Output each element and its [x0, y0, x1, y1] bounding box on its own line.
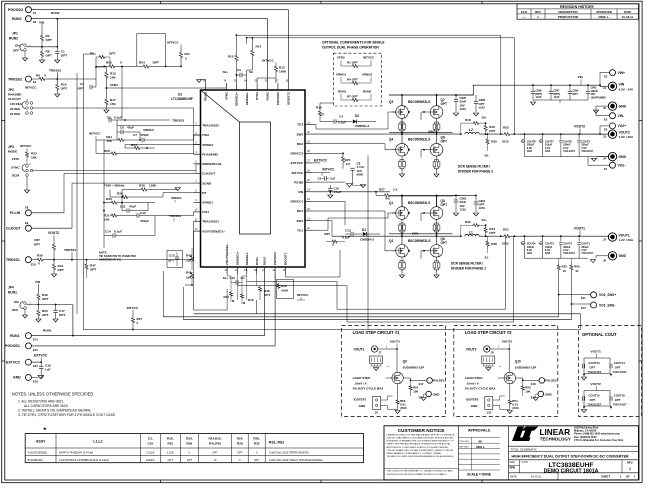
svg-text:OPT: OPT — [168, 259, 174, 263]
pin 24 VIN — [305, 191, 312, 193]
svg-text:1210: 1210 — [479, 206, 486, 210]
svg-text:OPT: OPT — [90, 268, 96, 272]
svg-text:LTC3838EUHF: LTC3838EUHF — [171, 97, 193, 101]
svg-text:R35: R35 — [324, 232, 330, 236]
svg-text:E14: E14 — [33, 338, 38, 342]
wire source to pulse — [516, 377, 523, 379]
wire BG2 net — [312, 143, 385, 145]
wire S2+ kelvin — [500, 35, 502, 134]
snubber Q2 — [399, 263, 402, 268]
pin 36 VFB2 — [225, 83, 227, 90]
svg-text:C4: C4 — [339, 115, 343, 119]
pin 14 SENSE1+ — [237, 267, 239, 274]
ground JP1 — [24, 51, 26, 58]
svg-text:—: — — [523, 15, 526, 19]
wire phase1 drain feed — [399, 194, 453, 196]
svg-text:R26,: R26, — [253, 437, 260, 441]
svg-text:2512: 2512 — [502, 140, 509, 144]
svg-text:Q4: Q4 — [389, 138, 393, 142]
svg-text:R18,: R18, — [167, 437, 174, 441]
svg-text:Q2: Q2 — [389, 239, 393, 243]
svg-text:2. INSTALL SHUNTS ON JUMPERS: 2. INSTALL SHUNTS ON JUMPERS AS SHOWN. — [18, 408, 91, 412]
svg-text:HOWEVER, IT REMAINS THE CUSTOM: HOWEVER, IT REMAINS THE CUSTOMER'S RESPO… — [387, 440, 454, 443]
svg-text:OPT: OPT — [489, 129, 495, 133]
svg-text:J2: J2 — [603, 106, 606, 110]
svg-text:PGOOD1: PGOOD1 — [5, 344, 20, 348]
svg-text:TRKSS2: TRKSS2 — [172, 119, 184, 123]
capacitor COUT14 OPT — [609, 364, 611, 368]
svg-text:GND: GND — [433, 392, 441, 396]
svg-text:RUN1: RUN1 — [8, 291, 17, 295]
wire GND J6 — [596, 255, 608, 257]
wire GND J2 — [596, 105, 608, 107]
svg-text:E19: E19 — [33, 379, 38, 383]
svg-text:R14,R15,: R14,R15, — [208, 437, 221, 441]
svg-text:J10: J10 — [487, 411, 492, 415]
capacitor COUT7 — [542, 134, 544, 140]
svg-text:VOUT1: VOUT1 — [619, 233, 630, 237]
svg-text:1206: 1206 — [527, 151, 533, 153]
svg-text:C7: C7 — [133, 133, 137, 137]
svg-text:R43: R43 — [574, 264, 580, 268]
svg-text:VRNG2: VRNG2 — [202, 143, 213, 147]
svg-text:PGND: PGND — [204, 91, 208, 101]
svg-text:OPT: OPT — [212, 450, 218, 454]
svg-text:2010: 2010 — [512, 406, 519, 410]
svg-text:0: 0 — [38, 262, 40, 266]
svg-text:RUN1: RUN1 — [43, 329, 52, 333]
svg-text:R20: R20 — [491, 140, 497, 144]
svg-text:VRNG1: VRNG1 — [171, 196, 182, 200]
svg-text:10mV / A: 10mV / A — [355, 382, 368, 386]
svg-text:LOAD STEP: LOAD STEP — [353, 376, 371, 380]
svg-text:1210: 1210 — [536, 95, 542, 99]
svg-text:2.2: 2.2 — [393, 187, 398, 191]
wire pin13 riser — [226, 289, 228, 310]
pin 19 BOOST1 — [284, 267, 286, 274]
svg-text:R32: R32 — [167, 442, 173, 446]
wire VOUT2 rail — [520, 133, 610, 135]
svg-text:VRNG2: VRNG2 — [362, 73, 373, 77]
svg-text:OPT: OPT — [46, 54, 52, 58]
svg-text:RUN2: RUN2 — [266, 92, 270, 101]
wire drain rail Q1/Q5 — [389, 195, 453, 197]
wire COUT gnd rail — [525, 156, 609, 158]
date sheet row — [510, 475, 636, 479]
wire gate Q10 — [498, 377, 504, 379]
svg-text:OPT: OPT — [61, 54, 67, 58]
svg-text:15K: 15K — [110, 102, 116, 106]
revision history table — [517, 4, 639, 19]
svg-text:R24,: R24, — [237, 437, 244, 441]
pin 29 BG2 — [305, 143, 312, 145]
pin 18 PGOOD1 — [274, 267, 276, 274]
capacitor COUT13 OPT — [584, 358, 610, 374]
wire DTR bus — [256, 300, 258, 314]
svg-text:JP2: JP2 — [8, 88, 14, 92]
wire drain rail Q2/Q6 — [389, 233, 453, 235]
svg-text:BSC050NE2LS: BSC050NE2LS — [408, 201, 430, 205]
pin 27 EXTVCC — [305, 162, 312, 164]
svg-text:TG1: TG1 — [297, 228, 303, 232]
svg-text:1uF: 1uF — [45, 368, 51, 372]
svg-text:ALL CAPACITORS ARE 0603.: ALL CAPACITORS ARE 0603. — [24, 404, 69, 408]
svg-text:J5: J5 — [603, 237, 606, 241]
svg-text:OF: OF — [626, 475, 630, 479]
svg-text:TRKSS1: TRKSS1 — [64, 248, 76, 252]
pin 26 INTVCC — [305, 172, 312, 174]
svg-text:2.2: 2.2 — [346, 162, 351, 166]
wire optional cout2 — [583, 406, 585, 408]
svg-text:DCM: DCM — [12, 174, 19, 178]
svg-text:C3: C3 — [237, 68, 241, 72]
svg-text:RS1, RS2: RS1, RS2 — [269, 441, 284, 445]
transistor Q10 SUD50N03-12P — [504, 372, 515, 383]
pin 22 BG1 — [305, 210, 312, 212]
svg-text:RUN2: RUN2 — [51, 11, 60, 15]
svg-text:1210: 1210 — [460, 208, 467, 212]
ground optional cout2 — [581, 410, 586, 413]
svg-text:5% DUTY CYCLE MAX: 5% DUTY CYCLE MAX — [353, 386, 384, 390]
terminal E11 VO1_SNS+ — [591, 292, 597, 298]
svg-text:PULSE1: PULSE1 — [433, 379, 445, 383]
wire VOUT2 feed — [490, 348, 509, 350]
pin 1 TRACKSS2 — [194, 124, 201, 126]
svg-text:1206: 1206 — [527, 253, 533, 255]
svg-text:6.3V: 6.3V — [527, 146, 533, 150]
svg-text:S2+: S2+ — [223, 70, 229, 74]
svg-text:SHEET: SHEET — [601, 475, 610, 479]
svg-text:GND: GND — [13, 376, 21, 380]
svg-text:C14: C14 — [105, 229, 111, 233]
svg-text:R7 OPT: R7 OPT — [347, 95, 358, 99]
svg-text:PGOOD2: PGOOD2 — [8, 8, 23, 12]
svg-text:OPT: OPT — [615, 398, 621, 402]
svg-text:OPT: OPT — [573, 92, 579, 96]
pin 16 DTR1 — [256, 267, 258, 274]
svg-text:J8: J8 — [491, 351, 494, 355]
svg-text:OPT: OPT — [42, 297, 48, 301]
resistor R54 0.01 — [508, 399, 511, 405]
svg-text:R29: R29 — [237, 442, 243, 446]
svg-text:S1+: S1+ — [223, 276, 229, 280]
wire PLLIN — [31, 212, 64, 214]
transistor Q9 SUD50N03-12P — [392, 372, 403, 383]
pin 11 TRACKSS1 — [194, 221, 201, 223]
svg-text:E17: E17 — [419, 382, 424, 386]
svg-text:6.3V: 6.3V — [545, 146, 551, 150]
ground CIN bank — [530, 102, 535, 105]
svg-text:0.1uF: 0.1uF — [114, 116, 122, 120]
svg-text:47pF: 47pF — [127, 126, 134, 130]
svg-text:INTVCC: INTVCC — [25, 86, 37, 90]
pin 6 CLKOUT — [194, 172, 201, 174]
svg-text:IOSTEP2: IOSTEP2 — [466, 397, 479, 401]
svg-text:6.3V: 6.3V — [545, 248, 551, 252]
wire S1- kelvin loop — [505, 236, 507, 309]
svg-text:R45: R45 — [248, 298, 254, 302]
svg-text:BSC050NE2LS: BSC050NE2LS — [408, 100, 430, 104]
ground R28 — [175, 188, 180, 191]
svg-text:TRKSS1: TRKSS1 — [6, 258, 20, 262]
svg-text:INTVCC: INTVCC — [20, 144, 32, 148]
load step circuit #1 box — [342, 326, 446, 417]
svg-text:Q1: Q1 — [389, 201, 393, 205]
svg-text:FSW = 300kHz: FSW = 300kHz — [104, 184, 125, 188]
ground J8 — [486, 368, 491, 371]
svg-text:15K: 15K — [106, 139, 112, 143]
svg-text:VERIFY PROPER AND RELIABLE OPE: VERIFY PROPER AND RELIABLE OPERATION IN … — [387, 443, 452, 446]
svg-text:DRVCC1: DRVCC1 — [291, 200, 304, 204]
wire MODE to pin5 — [33, 170, 196, 172]
svg-text:OPT: OPT — [109, 52, 115, 56]
svg-text:GND: GND — [619, 105, 627, 109]
svg-text:INTVCC: INTVCC — [297, 293, 309, 297]
resistor R17 15K — [105, 88, 107, 98]
capacitor C15 OPT — [167, 251, 183, 268]
svg-text:INTVCC: INTVCC — [89, 132, 101, 136]
ground Q4 snubber — [399, 174, 404, 177]
svg-text:E4: E4 — [33, 80, 37, 84]
svg-text:OPT: OPT — [78, 87, 84, 91]
svg-text:LOAD STEP: LOAD STEP — [465, 376, 483, 380]
wire optional cout1 — [583, 374, 585, 376]
transistor Q4 BSC050NE2LS — [396, 143, 409, 156]
svg-text:1206: 1206 — [545, 253, 551, 255]
assembly table — [25, 434, 363, 463]
terminal J1 VIN — [608, 82, 616, 90]
pin 25 PGND — [305, 181, 312, 183]
wire drain rail Q4/Q8 — [389, 132, 453, 134]
svg-text:E11: E11 — [581, 296, 586, 300]
svg-text:IC NO.: IC NO. — [522, 462, 529, 464]
svg-text:C9: C9 — [318, 176, 322, 180]
customer notice text — [384, 428, 459, 476]
svg-text:OPT: OPT — [34, 243, 40, 247]
svg-text:E18: E18 — [531, 382, 536, 386]
svg-text:R41,R45: R41,R45 — [209, 442, 221, 446]
svg-text:REVISION HISTORY: REVISION HISTORY — [560, 5, 595, 9]
ground PGND top pin — [205, 80, 207, 84]
svg-text:J9: J9 — [375, 411, 378, 415]
svg-text:S1+: S1+ — [482, 218, 488, 222]
svg-text:C15: C15 — [169, 254, 175, 258]
wire Q2 sources gnd — [401, 257, 403, 263]
svg-text:BSC050NE2LS: BSC050NE2LS — [408, 138, 430, 142]
svg-text:2.5V: 2.5V — [581, 248, 587, 252]
svg-text:1000pF: 1000pF — [146, 458, 155, 462]
svg-text:2.5V: 2.5V — [563, 248, 569, 252]
wire sense1 drops — [237, 274, 239, 300]
svg-text:J4: J4 — [603, 157, 606, 161]
svg-text:MODE/PLLIN: MODE/PLLIN — [202, 162, 222, 166]
svg-text:R32: R32 — [465, 220, 471, 224]
svg-text:R20,: R20, — [186, 437, 193, 441]
svg-text:S2+: S2+ — [482, 116, 488, 120]
wire TG1 net — [312, 229, 328, 231]
svg-text:ASSY: ASSY — [36, 440, 46, 444]
svg-text:DESCRIPTION: DESCRIPTION — [558, 10, 577, 14]
svg-text:2010: 2010 — [400, 406, 407, 410]
svg-text:OPT: OPT — [441, 140, 448, 144]
pin 5 MODE/PLLIN — [194, 163, 201, 165]
terminal E15 PGOOD1 — [25, 343, 31, 349]
transistor Q5 OPT — [430, 207, 443, 220]
svg-text:Q3: Q3 — [389, 100, 393, 104]
svg-text:★: ★ — [42, 426, 47, 431]
wire VO1_SNS+ — [559, 294, 591, 296]
pin 23 DRVCC1 — [305, 200, 312, 202]
wire VFB2 net — [105, 84, 107, 88]
svg-text:D2: D2 — [355, 114, 359, 118]
svg-text:CIRCUIT BOARD LAYOUT MAY SIGNI: CIRCUIT BOARD LAYOUT MAY SIGNIFICANTLY A… — [387, 449, 455, 452]
svg-text:0.000 Ohm 2512 TEPRO RNS32A: 0.000 Ohm 2512 TEPRO RNS32A — [269, 450, 309, 454]
svg-text:OPT: OPT — [441, 203, 448, 207]
wire JP1 to node — [26, 46, 57, 48]
snubber Q7 — [433, 124, 436, 129]
svg-text:LOAD STEP CIRCUIT #1: LOAD STEP CIRCUIT #1 — [353, 330, 401, 335]
terminal E10 TRKSS1 — [25, 257, 31, 263]
svg-text:SIZE: SIZE — [510, 462, 516, 464]
svg-text:120 DEG: 120 DEG — [10, 102, 23, 106]
svg-text:R41: R41 — [223, 295, 229, 299]
svg-text:CUSTOMER NOTICE: CUSTOMER NOTICE — [398, 428, 446, 434]
svg-text:OPT: OPT — [441, 102, 448, 106]
svg-text:COILTRONICS FP1308R3-R44-R (0.: COILTRONICS FP1308R3-R44-R (0.44uH) — [59, 458, 109, 462]
svg-text:OPT: OPT — [42, 313, 48, 317]
pin 2 ITH2 — [194, 134, 201, 136]
svg-text:LINEAR TECHNOLOGY HAS MADE A B: LINEAR TECHNOLOGY HAS MADE A BEST EFFORT… — [387, 433, 455, 436]
svg-text:1: 1 — [629, 467, 631, 471]
capacitor COUT3 — [542, 236, 544, 242]
svg-text:OPT: OPT — [46, 38, 52, 42]
svg-text:R55: R55 — [106, 60, 112, 64]
pin 38 PGND — [205, 83, 207, 90]
svg-text:EXTVCC: EXTVCC — [314, 158, 328, 162]
svg-text:UNDERNEATH IC.: UNDERNEATH IC. — [99, 258, 122, 262]
wire SW1 sources — [401, 219, 403, 236]
svg-text:133K: 133K — [149, 184, 157, 188]
svg-text:R37: R37 — [34, 238, 40, 242]
svg-text:OFF: OFF — [12, 308, 18, 312]
svg-text:TIE SGND PIN TO PGND PAD: TIE SGND PIN TO PGND PAD — [99, 254, 136, 258]
wire RT pin net — [148, 202, 155, 204]
svg-text:R18: R18 — [465, 118, 471, 122]
op-amp U1 LTC3838EUHF controller IC — [171, 90, 305, 267]
svg-text:SENSE2+: SENSE2+ — [235, 92, 239, 106]
svg-text:EXTVCC: EXTVCC — [34, 354, 48, 358]
terminal E6 VO2+ — [610, 123, 616, 129]
svg-text:1.5V / 20A: 1.5V / 20A — [619, 135, 634, 139]
wire TG2 net — [312, 124, 316, 126]
svg-text:DIVIDER FOR PHASE 2: DIVIDER FOR PHASE 2 — [458, 170, 493, 174]
terminal J7 VOUT1 — [371, 346, 377, 352]
svg-text:R9: R9 — [36, 74, 40, 78]
svg-text:DATE:: DATE: — [510, 476, 517, 479]
svg-text:OPT: OPT — [254, 458, 260, 462]
svg-text:10-18-11: 10-18-11 — [622, 15, 634, 19]
title block address — [574, 425, 624, 442]
svg-text:C13: C13 — [345, 228, 351, 232]
svg-text:-B (RSENSE): -B (RSENSE) — [27, 458, 43, 462]
svg-text:VIN: VIN — [35, 280, 41, 284]
connector J8 header — [482, 356, 495, 364]
snubber Q8 — [433, 162, 436, 167]
svg-text:E12: E12 — [581, 306, 586, 310]
svg-text:0: 0 — [44, 74, 46, 78]
wire PGOOD2 net — [31, 9, 288, 11]
wire sense bus 2 — [163, 316, 558, 318]
jumper JP3 shunt arc — [22, 165, 25, 172]
svg-text:PULSE2: PULSE2 — [545, 379, 557, 383]
ground E20 — [424, 393, 426, 395]
svg-text:PHASEMD: PHASEMD — [202, 152, 218, 156]
wire phase2 drain feed — [389, 94, 453, 96]
svg-text:6.3V: 6.3V — [527, 248, 533, 252]
svg-text:R11: R11 — [185, 52, 191, 56]
svg-text:PGND: PGND — [294, 180, 304, 184]
svg-text:MODE: MODE — [8, 150, 17, 154]
svg-text:COUT16: COUT16 — [614, 394, 625, 398]
svg-text:RT: RT — [202, 191, 206, 195]
ground J7 — [374, 368, 379, 371]
capacitor C2 OPT — [91, 86, 96, 88]
wire VO2+ — [600, 125, 610, 127]
svg-text:INTVCC: INTVCC — [363, 56, 375, 60]
svg-text:COUT15: COUT15 — [589, 394, 600, 398]
transistor Q8 OPT — [430, 143, 443, 156]
svg-text:15K: 15K — [110, 76, 116, 80]
pin 17 RUN1 — [264, 267, 266, 274]
svg-text:JP3: JP3 — [8, 145, 14, 149]
svg-text:DEMO CIRCUIT 1801A: DEMO CIRCUIT 1801A — [544, 468, 599, 474]
wire sense bus 3 — [184, 319, 572, 321]
svg-text:R4 OPT: R4 OPT — [347, 78, 358, 82]
svg-text:VOUT2: VOUT2 — [502, 340, 513, 344]
ground R53 — [395, 411, 400, 414]
svg-text:C16: C16 — [230, 276, 236, 280]
wire gate Q9 — [386, 377, 392, 379]
svg-text:E8: E8 — [25, 206, 29, 210]
wire CLKOUT — [31, 227, 72, 229]
svg-text:BG1: BG1 — [297, 209, 304, 213]
svg-text:DCR SENSE FILTER /: DCR SENSE FILTER / — [451, 262, 483, 266]
transistor Q6 OPT — [430, 245, 443, 258]
snubber Q1 — [399, 225, 402, 230]
pin 15 SENSE1- — [246, 267, 248, 274]
wire BOOST1 net — [284, 274, 286, 277]
capacitor C1 OPT — [56, 47, 58, 52]
svg-text:7343-D1ST: 7343-D1ST — [563, 252, 575, 255]
resistor R52 10K — [521, 385, 524, 391]
terminal J6 GND — [608, 252, 616, 260]
svg-text:NOTES: UNLESS OTHERWISE SPECI: NOTES: UNLESS OTHERWISE SPECIFIED — [12, 391, 93, 396]
svg-text:10K: 10K — [413, 390, 419, 394]
wire DRVCC2 net — [312, 152, 343, 154]
svg-text:PLLIN: PLLIN — [10, 211, 21, 215]
svg-text:OPT: OPT — [441, 241, 448, 245]
svg-text:7343-D1ST: 7343-D1ST — [613, 403, 627, 407]
transistor Q3 BSC050NE2LS — [396, 106, 409, 119]
ground CIN5 — [453, 113, 458, 116]
pin 32 RUN2 — [267, 83, 269, 90]
wire sense2+ feedback run — [236, 34, 500, 36]
svg-text:Q10: Q10 — [515, 360, 521, 364]
terminal E12 VO1_SNS- — [591, 302, 597, 308]
wire Q4 sources gnd — [401, 156, 403, 162]
svg-text:R39: R39 — [37, 254, 43, 258]
svg-text:THIS CIRCUIT IS PROPRIETARY TO: THIS CIRCUIT IS PROPRIETARY TO LINEAR TE… — [387, 470, 454, 473]
